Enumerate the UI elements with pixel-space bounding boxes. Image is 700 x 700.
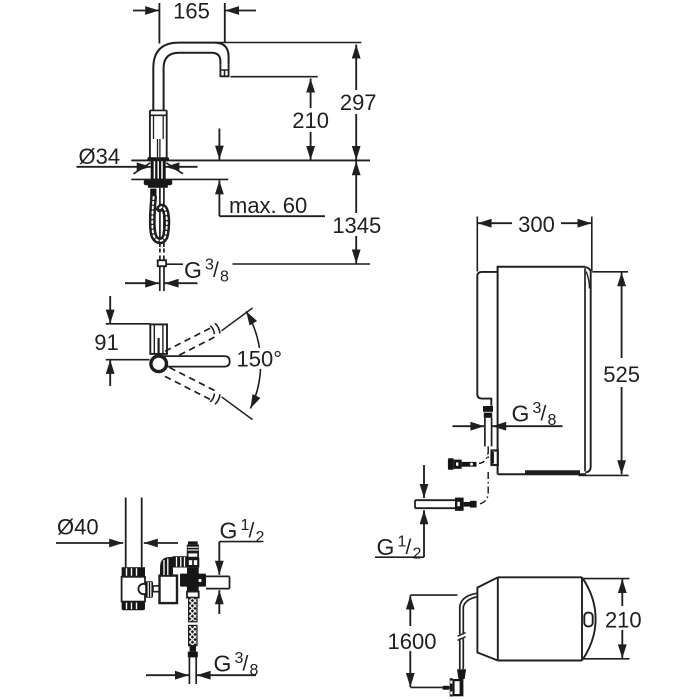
- swivel pivot: [151, 356, 167, 372]
- pipe to G3/8: [159, 266, 161, 291]
- cross fitting: [187, 568, 199, 592]
- svg-text:G: G: [220, 518, 238, 544]
- pipe centerline: [487, 446, 489, 459]
- mounting nut: [148, 185, 168, 188]
- dimension G1/2 arrows: [423, 465, 425, 498]
- Ø40 tailpipe: [125, 498, 127, 568]
- svg-text:G: G: [512, 401, 530, 427]
- svg-text:1600: 1600: [388, 629, 437, 654]
- dimension 210 (tank): [584, 578, 630, 580]
- dimension 165 (spout reach): [158, 3, 160, 44]
- braided hose lower: [189, 625, 197, 645]
- faucet base flange: [147, 157, 169, 161]
- outlet pipe stub (to right): [206, 575, 230, 577]
- svg-text:2: 2: [256, 529, 265, 546]
- supply pipe under faucet: [159, 188, 161, 247]
- svg-text:/: /: [213, 259, 219, 282]
- swivel arc 150deg: [246, 311, 261, 408]
- 150 degree text: [236, 348, 281, 369]
- tailpipe union bottom band: [122, 602, 145, 611]
- dimension Ø34: [77, 166, 151, 168]
- mounting tab inner edge: [584, 268, 586, 471]
- boiler outlet pipe G3/8: [484, 418, 486, 447]
- spout (top view): [160, 356, 230, 367]
- braided hose upper: [189, 598, 197, 622]
- svg-text:8: 8: [220, 268, 229, 285]
- svg-text:G: G: [184, 257, 202, 283]
- valve top nut: [188, 553, 199, 558]
- tailpipe union top band: [122, 567, 145, 577]
- plug prong: [442, 686, 450, 690]
- svg-text:/: /: [541, 403, 547, 426]
- boiler bottom: [498, 473, 586, 475]
- G3/8 pipe diameter arrows: [125, 282, 159, 284]
- svg-text:Ø40: Ø40: [57, 515, 99, 540]
- svg-text:297: 297: [340, 90, 377, 115]
- mounting washer under deck: [144, 180, 172, 185]
- sink deck line: [131, 159, 370, 161]
- panel inlet nut: [483, 406, 493, 412]
- hose end fitting: [190, 646, 196, 652]
- plug body: [453, 679, 464, 696]
- faucet body (top view): [150, 324, 167, 354]
- svg-text:165: 165: [173, 0, 210, 24]
- svg-text:G: G: [214, 650, 232, 676]
- valve body block: [160, 576, 178, 604]
- check valve nut: [187, 592, 199, 598]
- svg-text:G: G: [377, 534, 395, 560]
- elbow vertical arm: [161, 558, 173, 576]
- plug face: [450, 678, 453, 696]
- dimension 300: [476, 217, 478, 272]
- dimension 210: [231, 76, 318, 78]
- dashed swivel position lower: [165, 376, 211, 399]
- deck bottom line: [131, 178, 228, 180]
- dimension 1345: [355, 161, 357, 264]
- compression fitting G3/8: [448, 458, 454, 470]
- G 3/8 label (faucet supply): [167, 263, 184, 265]
- tank dome: [582, 577, 596, 660]
- dimension 525: [592, 271, 628, 273]
- svg-text:/: /: [243, 652, 249, 675]
- clamp wedge leaders: [134, 163, 151, 174]
- G1/2 male thread fitting: [188, 541, 198, 544]
- dashed swivel position upper: [165, 328, 211, 351]
- elbow horizontal arm: [173, 556, 188, 567]
- faucet body collar: [150, 109, 167, 111]
- boiler front panel: [477, 272, 497, 406]
- svg-text:/: /: [406, 536, 412, 559]
- svg-text:Ø34: Ø34: [79, 144, 121, 169]
- faucet spout tube: [153, 43, 228, 111]
- dimension 297: [215, 42, 362, 44]
- spout outlet / aerator: [220, 65, 228, 77]
- svg-text:2: 2: [413, 546, 422, 563]
- svg-text:8: 8: [250, 662, 259, 679]
- svg-text:210: 210: [605, 607, 642, 632]
- svg-text:/: /: [249, 520, 255, 543]
- svg-text:1345: 1345: [332, 213, 381, 238]
- dimension 91: [106, 323, 151, 325]
- svg-text:150°: 150°: [237, 346, 283, 371]
- svg-text:91: 91: [94, 330, 118, 355]
- tank outline: [477, 577, 582, 660]
- svg-text:max. 60: max. 60: [229, 193, 307, 218]
- dimension 1600: [410, 594, 457, 596]
- tailpipe union body: [122, 577, 145, 602]
- hose end pipe: [188, 657, 190, 684]
- G1/2 pipe stub: [415, 499, 455, 501]
- hose loop (braided): [152, 197, 167, 241]
- inlet stub on boiler edge: [492, 451, 498, 466]
- stub fitting: [455, 498, 464, 511]
- valve knob: [145, 581, 153, 598]
- cable strain relief: [457, 669, 466, 679]
- faucet body: [149, 110, 151, 158]
- power cable: [460, 593, 478, 634]
- pipe coupling nut: [158, 260, 166, 266]
- hose nipple: [150, 189, 156, 199]
- svg-text:210: 210: [292, 108, 329, 133]
- dome handle oval: [584, 613, 592, 627]
- threaded shank between deck: [151, 160, 166, 179]
- boiler body: [498, 267, 586, 475]
- dimension max. 60: [218, 129, 220, 160]
- svg-text:525: 525: [603, 362, 640, 387]
- knob neck: [153, 586, 160, 592]
- svg-text:300: 300: [518, 212, 555, 237]
